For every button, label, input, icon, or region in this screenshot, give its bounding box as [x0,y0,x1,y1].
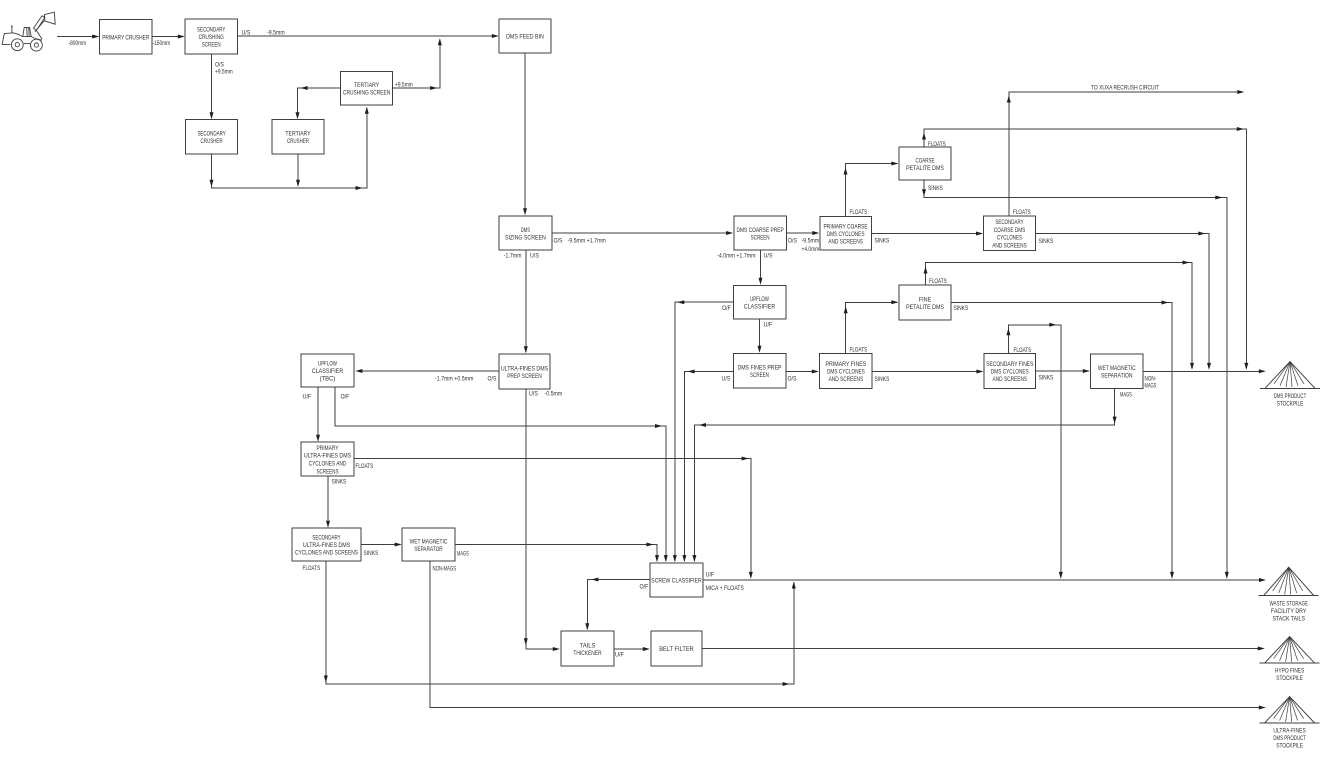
svg-text:STOCKPILE: STOCKPILE [1276,676,1303,682]
stockpile DMS PRODUCT STOCKPILE [1260,362,1320,408]
box PRIMARY CRUSHER [100,20,153,54]
svg-text:AND SCREENS: AND SCREENS [993,376,1028,383]
wire wet magnetic separator mags to screw classifier [455,543,659,563]
stockpile ULTRA-FINES DMS PRODUCT STOCKPILE [1260,697,1320,750]
box PRIMARY FINES DMS CYCLONES AND SCREENS [820,354,873,389]
box PRIMARY ULTRA-FINES DMS CYCLONES AND SCREENS [301,442,354,476]
svg-text:SINKS: SINKS [332,480,347,486]
svg-text:PETALITE DMS: PETALITE DMS [906,304,944,311]
svg-text:DMS COARSE PREP: DMS COARSE PREP [737,227,784,234]
wire screw classifier O/F to tails thickener [585,578,650,631]
svg-text:ULTRA-FINES DMS: ULTRA-FINES DMS [501,365,548,372]
svg-text:STOCKPILE: STOCKPILE [1277,401,1304,407]
wire primary coarse sinks [871,232,983,236]
svg-text:SCREEN: SCREEN [202,42,221,49]
svg-text:ULTRA-FINES DMS: ULTRA-FINES DMS [303,542,350,549]
svg-text:UPFLOW: UPFLOW [318,361,337,368]
svg-text:STACK TAILS: STACK TAILS [1272,616,1305,622]
svg-text:SCREENS: SCREENS [316,469,338,476]
wire sizing screen U/S -1.7mm [524,250,528,353]
svg-text:AND SCREENS: AND SCREENS [829,376,864,383]
wire tertiary crusher discharge [296,154,300,187]
wire fine petalite sinks to waste [951,301,1174,579]
svg-text:MAGS: MAGS [1120,393,1132,399]
svg-text:PRIMARY: PRIMARY [316,445,339,452]
svg-text:+4.0mm: +4.0mm [802,247,820,253]
wire ultra-fines prep O/S to upflow classifier TBC [355,369,499,373]
box DMS SIZING SCREEN [499,216,552,250]
svg-text:ULTRA-FINES: ULTRA-FINES [1273,729,1306,735]
svg-text:CRUSHING: CRUSHING [199,34,224,41]
front-end loader icon [2,12,55,51]
wire screw classifier U/F to waste storage [703,578,1266,582]
box SCREW CLASSIFIER [650,563,703,597]
wire fine petalite floats to DMS product [924,261,1195,370]
svg-text:U/F: U/F [303,395,312,401]
svg-text:SINKS: SINKS [954,306,969,312]
svg-text:-1.7mm +0.5mm: -1.7mm +0.5mm [435,377,473,383]
svg-text:ULTRA-FINES DMS: ULTRA-FINES DMS [304,453,351,460]
svg-text:-9.5mm: -9.5mm [267,31,285,37]
svg-text:FLOATS: FLOATS [303,566,321,572]
svg-text:O/S: O/S [488,377,497,383]
svg-text:STOCKPILE: STOCKPILE [1276,743,1303,749]
svg-text:PRIMARY CRUSHER: PRIMARY CRUSHER [102,34,150,41]
box SECONDARY FINES DMS CYCLONES AND SCREENS [984,354,1036,389]
svg-text:SCREW CLASSIFIER: SCREW CLASSIFIER [651,578,702,585]
svg-text:COARSE DMS: COARSE DMS [994,227,1026,234]
svg-text:CLASSIFIER: CLASSIFIER [312,368,344,375]
wire primary ultra-fines floats to waste [354,457,753,579]
svg-text:U/F: U/F [706,573,715,579]
wire ROM feed -800mm [57,35,99,39]
box DMS FEED BIN [499,19,551,53]
wire fines prep U/S to screw classifier [682,370,733,563]
svg-text:U/S: U/S [764,254,773,260]
svg-text:O/S: O/S [215,63,224,69]
svg-text:U/S: U/S [530,254,539,260]
svg-text:SCREEN: SCREEN [750,372,769,379]
svg-text:O/S: O/S [554,239,563,245]
svg-text:FINE: FINE [919,296,932,303]
box SECONDARY ULTRA-FINES DMS CYCLONES AND SCREENS [292,528,361,561]
wire upflow classifier U/F [758,319,762,353]
svg-text:-0.5mm: -0.5mm [545,392,563,398]
wire tertiary screen O/S to tertiary crusher [296,86,341,119]
svg-text:TERTIARY: TERTIARY [285,131,311,138]
svg-text:HYPO FINES: HYPO FINES [1275,669,1305,675]
svg-text:U/S: U/S [242,31,251,37]
svg-text:CLASSIFIER: CLASSIFIER [744,303,776,310]
svg-text:SIZING SCREEN: SIZING SCREEN [505,234,546,241]
wire secondary coarse sinks to DMS product [1036,232,1212,370]
wire upflow classifier O/F to screw classifier [673,300,734,562]
wire coarse petalite sinks to waste [922,180,1229,579]
svg-text:NON-: NON- [1145,377,1157,383]
wire fines prep O/S [786,370,819,374]
svg-text:SECONDARY FINES: SECONDARY FINES [986,361,1033,368]
box DMS FINES PREP SCREEN [733,354,786,388]
svg-text:SINKS: SINKS [1039,376,1054,382]
svg-text:WASTE STORAGE: WASTE STORAGE [1270,602,1308,608]
svg-text:CRUSHER: CRUSHER [287,138,309,145]
svg-text:PRIMARY COARSE: PRIMARY COARSE [824,224,868,231]
wire secondary screen O/S +9.5mm [210,54,214,119]
svg-text:SEPARATOR: SEPARATOR [414,546,443,553]
box TAILS THICKENER [561,631,614,666]
svg-text:-800mm: -800mm [69,41,87,47]
svg-text:-9.5mm +1.7mm: -9.5mm +1.7mm [568,239,606,245]
wire coarse prep screen O/S [786,231,819,235]
box WET MAGNETIC SEPARATOR [402,528,455,561]
wire primary fines sinks [872,370,983,374]
svg-text:U/F: U/F [615,653,624,659]
svg-text:TO XUXA RECRUSH CIRCUIT: TO XUXA RECRUSH CIRCUIT [1091,86,1159,92]
wire wet magnetic separation non-mags to DMS product stockpile [1143,369,1266,373]
svg-text:O/F: O/F [640,585,649,591]
wire secondary fines floats to waste [1006,323,1062,579]
wire primary coarse floats to coarse petalite DMS [844,162,899,217]
svg-text:WET MAGNETIC: WET MAGNETIC [410,538,448,545]
svg-text:MAGS: MAGS [457,552,469,558]
svg-text:-9.5mm: -9.5mm [802,239,820,245]
svg-text:O/F: O/F [722,306,731,312]
wire belt filter product to hypo fines stockpile [702,647,1265,651]
box UPFLOW CLASSIFIER (TBC) [301,354,354,387]
svg-text:SECONDARY: SECONDARY [995,219,1024,226]
svg-text:U/S: U/S [722,377,731,383]
svg-text:+9.5mm: +9.5mm [215,70,233,76]
svg-text:FLOATS: FLOATS [850,348,868,354]
wire DMS feed bin to sizing screen [523,53,527,215]
svg-text:CYCLONES AND SCREENS: CYCLONES AND SCREENS [295,550,358,557]
wire secondary crusher discharge [210,107,369,190]
svg-text:DMS FEED BIN: DMS FEED BIN [506,34,544,41]
svg-text:FLOATS: FLOATS [929,279,947,285]
wire TBC U/F to primary ultra-fines [316,387,320,442]
svg-text:PRIMARY FINES: PRIMARY FINES [825,361,866,368]
svg-text:FLOATS: FLOATS [850,210,868,216]
svg-text:PREP SCREEN: PREP SCREEN [507,373,542,380]
box TERTIARY CRUSHER [272,120,324,155]
svg-text:-150mm: -150mm [153,41,171,47]
svg-text:DMS FINES PREP: DMS FINES PREP [737,365,781,372]
wire TBC O/F to screw classifier [335,387,668,562]
wire wet magnetic separation mags to screw classifier [692,388,1116,562]
svg-text:MICA + FLOATS: MICA + FLOATS [706,586,744,592]
svg-text:-1.7mm: -1.7mm [504,254,522,260]
svg-text:SECONDARY: SECONDARY [197,131,226,138]
svg-text:DMS CYCLONES: DMS CYCLONES [827,369,865,376]
svg-text:CYCLONES AND: CYCLONES AND [309,461,347,468]
wire coarse petalite floats to DMS product [922,127,1248,370]
box COARSE PETALITE DMS [899,147,951,180]
svg-text:DMS CYCLONES: DMS CYCLONES [991,369,1029,376]
box SECONDARY CRUSHING SCREEN [185,19,238,54]
wire secondary ultra-fines sinks [361,543,402,547]
box UPFLOW CLASSIFIER [733,285,786,319]
svg-text:-4.0mm +1.7mm: -4.0mm +1.7mm [717,254,755,260]
svg-text:SINKS: SINKS [928,186,943,192]
box SECONDARY COARSE DMS CYCLONES AND SCREENS [984,216,1036,250]
box ULTRA-FINES DMS PREP SCREEN [499,354,550,389]
svg-text:FLOATS: FLOATS [928,142,946,148]
box PRIMARY COARSE DMS CYCLONES AND SCREENS [820,217,871,250]
svg-text:DMS CYCLONES: DMS CYCLONES [827,231,865,238]
box DMS COARSE PREP SCREEN [734,216,787,250]
wire wet magnetic separator non-mags to ultra-fines product [430,561,1266,710]
svg-text:FLOATS: FLOATS [1013,210,1031,216]
svg-text:MAGS: MAGS [1145,384,1157,390]
wire primary fines floats to fine petalite DMS [844,300,899,353]
box FINE PETALITE DMS [899,285,951,320]
svg-text:FACILITY DRY: FACILITY DRY [1271,609,1306,615]
svg-text:CYCLONES: CYCLONES [997,235,1022,242]
wire primary crusher product -150mm [152,35,185,39]
svg-text:SINKS: SINKS [364,551,379,557]
svg-text:U/S: U/S [529,392,538,398]
svg-text:U/F: U/F [764,323,773,329]
svg-text:DMS PRODUCT: DMS PRODUCT [1274,394,1307,400]
svg-text:DMS PRODUCT: DMS PRODUCT [1273,736,1306,742]
svg-text:CRUSHER: CRUSHER [201,138,223,145]
wire primary ultra-fines sinks [326,476,330,528]
svg-text:O/S: O/S [788,239,797,245]
wire secondary fines sinks [1036,369,1090,373]
wire sizing screen O/S -9.5mm +1.7mm [552,231,733,235]
svg-text:SCREEN: SCREEN [751,234,770,241]
svg-text:SECONDARY: SECONDARY [312,535,341,542]
stockpile HYPO FINES STOCKPILE [1260,637,1320,682]
svg-text:CRUSHING SCREEN: CRUSHING SCREEN [343,90,391,97]
svg-text:WET MAGNETIC: WET MAGNETIC [1098,365,1136,372]
wire coarse prep screen U/S to upflow classifier [759,250,763,285]
svg-text:DMS: DMS [521,227,530,234]
wire tertiary screen +9.5mm recycle [393,38,442,90]
box TERTIARY CRUSHING SCREEN [341,71,393,105]
svg-text:TAILS: TAILS [580,642,596,649]
svg-text:+9.5mm: +9.5mm [395,83,413,89]
svg-text:TERTIARY: TERTIARY [354,82,380,89]
box WET MAGNETIC SEPARATION [1091,354,1143,388]
svg-text:(TBC): (TBC) [320,376,336,383]
svg-text:FLOATS: FLOATS [1014,348,1032,354]
box BELT FILTER [651,631,702,666]
svg-text:SECONDARY: SECONDARY [197,27,226,34]
wire ultra-fines prep U/S to tails thickener [524,389,560,651]
svg-text:O/S: O/S [788,377,797,383]
svg-text:SINKS: SINKS [875,239,890,245]
svg-text:AND SCREENS: AND SCREENS [992,243,1027,250]
wire U/S -9.5mm to DMS feed bin [238,34,499,38]
svg-text:SINKS: SINKS [1039,239,1054,245]
wire tails thickener U/F to belt filter [614,647,650,651]
svg-text:COARSE: COARSE [916,157,935,164]
box SECONDARY CRUSHER [186,120,238,155]
wire secondary coarse floats to Xuxa recrush [1007,90,1245,216]
svg-text:BELT FILTER: BELT FILTER [659,646,694,653]
svg-text:O/F: O/F [341,395,350,401]
svg-text:AND SCREENS: AND SCREENS [828,238,863,245]
svg-text:THICKENER: THICKENER [573,650,602,657]
stockpile WASTE STORAGE FACILITY DRY STACK TAILS [1259,567,1319,622]
svg-text:NON-MAGS: NON-MAGS [433,567,457,573]
svg-text:SINKS: SINKS [875,377,890,383]
wire secondary ultra-fines floats to waste line [324,561,796,686]
svg-text:PETALITE DMS: PETALITE DMS [906,165,944,172]
svg-text:UPFLOW: UPFLOW [750,296,769,303]
svg-text:SEPARATION: SEPARATION [1101,372,1133,379]
svg-text:FLOATS: FLOATS [356,464,374,470]
